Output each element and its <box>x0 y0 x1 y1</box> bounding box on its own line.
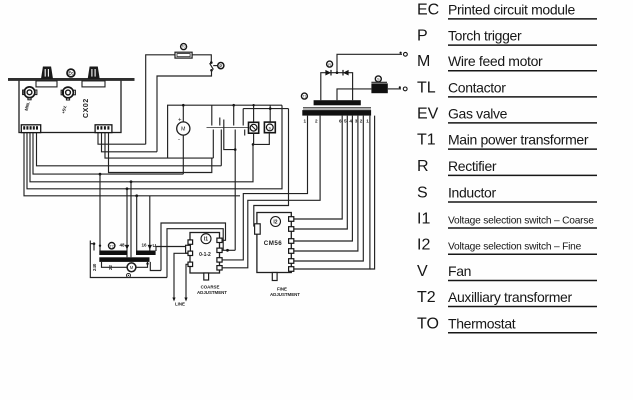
EV coil top feed <box>253 105 255 122</box>
I1 right terminals <box>217 238 222 242</box>
T2 right loop <box>150 262 161 271</box>
negative terminal <box>403 87 407 91</box>
trigger blade <box>210 63 214 69</box>
legend row TO <box>417 315 597 333</box>
svg-text:Main power transformer: Main power transformer <box>448 132 589 148</box>
tap wire 4 <box>294 116 348 229</box>
wire e2 <box>102 133 158 152</box>
inductor body <box>371 83 387 93</box>
legend row P <box>417 28 597 46</box>
thermostat TO body <box>175 52 192 58</box>
legend row M <box>417 53 597 71</box>
wire term1 (arc over box) <box>161 223 226 271</box>
svg-text:S: S <box>377 78 380 82</box>
tap wire 9 <box>370 116 375 269</box>
secondary bar <box>314 100 361 105</box>
wire to I2 tab <box>254 109 289 226</box>
arrowhead 1 <box>172 298 175 302</box>
arrowhead 2 <box>184 298 187 302</box>
svg-text:TL: TL <box>417 79 436 96</box>
svg-text:16: 16 <box>142 243 148 248</box>
svg-text:I2: I2 <box>273 220 277 226</box>
svg-text:S: S <box>417 185 428 202</box>
wire e4 <box>109 133 212 173</box>
drop D <box>136 196 138 251</box>
svg-text:+5V.: +5V. <box>61 105 68 115</box>
wire term4 (to T1 tap 2) <box>222 116 320 268</box>
fan V circuit <box>102 262 128 267</box>
I2 left tab <box>255 224 261 234</box>
motor M circle <box>177 117 190 142</box>
connector CN2 (right) <box>95 125 112 133</box>
svg-text:4: 4 <box>349 119 352 124</box>
tap arrow 1 <box>125 245 129 250</box>
knob K2 on panel <box>89 67 99 78</box>
svg-text:Printed circuit module: Printed circuit module <box>448 1 575 17</box>
svg-text:EC: EC <box>417 1 439 18</box>
svg-text:ADJUSTMENT: ADJUSTMENT <box>197 290 227 295</box>
positive terminal <box>404 52 408 56</box>
legend row EC <box>417 1 597 19</box>
svg-text:TO: TO <box>417 315 439 332</box>
primary bar <box>99 257 149 262</box>
EV coil bottom lead <box>253 133 255 144</box>
svg-text:I1: I1 <box>204 237 208 243</box>
svg-text:CM56: CM56 <box>264 240 283 247</box>
svg-text:3: 3 <box>355 119 358 124</box>
svg-text:M: M <box>130 265 134 270</box>
svg-text:240: 240 <box>92 263 97 271</box>
line wire 1 <box>174 253 189 298</box>
wire bottom of P loop <box>157 70 212 152</box>
fan motor circle <box>127 263 136 272</box>
wire l4 (to supply rail end) <box>27 105 282 189</box>
svg-text:Torch trigger: Torch trigger <box>448 28 522 44</box>
wire term2 (arc over box) <box>222 249 235 251</box>
legend row R <box>417 158 597 176</box>
I2 shaft <box>272 273 277 281</box>
line wire 2 <box>186 264 189 298</box>
drop B <box>126 189 128 257</box>
tap wire 3 <box>294 116 342 219</box>
diode D2 <box>343 70 349 76</box>
svg-text:R: R <box>328 63 331 67</box>
svg-text:Wire feed motor: Wire feed motor <box>448 53 543 69</box>
contact 3 <box>234 105 236 149</box>
TO label circle <box>181 44 187 50</box>
I1 left terminals <box>188 240 193 244</box>
svg-text:T1: T1 <box>417 132 436 149</box>
drop C <box>130 182 132 257</box>
front panel bar <box>8 78 135 81</box>
tap wire 8 <box>294 116 370 269</box>
connector CN1 (left) <box>21 125 40 133</box>
wire l5 <box>24 133 240 196</box>
V label circle <box>127 273 131 277</box>
svg-text:Ec: Ec <box>68 71 74 76</box>
mechanical link line <box>207 127 251 129</box>
legend row I1 <box>417 211 597 229</box>
svg-text:Thermostat: Thermostat <box>448 315 516 331</box>
left rail of T2 <box>90 241 167 278</box>
TL coil bottom lead <box>253 133 269 145</box>
svg-text:T1: T1 <box>303 95 307 99</box>
EC label circle <box>67 69 75 77</box>
svg-text:T2: T2 <box>417 289 436 306</box>
I2 right terminals <box>289 217 294 222</box>
tap arrow 2 <box>148 245 152 250</box>
P label circle <box>218 63 224 69</box>
svg-text:Voltage selection switch – Coa: Voltage selection switch – Coarse <box>448 216 594 227</box>
I1 left tab <box>186 245 191 253</box>
svg-text:M: M <box>181 127 185 133</box>
svg-text:1: 1 <box>304 119 307 124</box>
svg-text:EV: EV <box>417 105 439 122</box>
drop A <box>99 174 101 250</box>
I2 label circle <box>271 217 281 227</box>
inductor output wire <box>388 88 401 90</box>
I2 box <box>257 213 291 273</box>
potentiometer +5V <box>61 87 76 114</box>
svg-text:To: To <box>182 45 186 49</box>
svg-text:Fan: Fan <box>448 263 471 279</box>
tap wire 7 <box>294 116 364 261</box>
svg-text:2: 2 <box>360 119 363 124</box>
svg-text:2: 2 <box>315 119 318 124</box>
PCB body of module EC <box>19 80 121 133</box>
tap wire 5 <box>294 116 353 241</box>
tap wire 6 <box>294 116 358 251</box>
auxiliary wire U <box>224 120 235 150</box>
node d4 <box>99 173 102 176</box>
svg-text:Auxilliary transformer: Auxilliary transformer <box>448 289 572 305</box>
legend row V <box>417 263 597 281</box>
positive output wire <box>337 54 402 72</box>
contact 2 <box>220 118 222 166</box>
svg-text:Contactor: Contactor <box>448 79 506 95</box>
svg-text:I1: I1 <box>417 211 430 228</box>
svg-text:P: P <box>219 63 222 68</box>
wire e3 <box>105 133 213 159</box>
core lines <box>303 107 371 109</box>
svg-text:V: V <box>417 263 428 280</box>
R label circle <box>327 61 333 67</box>
node d3 <box>135 194 138 197</box>
wire l2 <box>33 133 183 175</box>
svg-text:+: + <box>178 117 182 123</box>
T1 label circle <box>301 93 307 99</box>
I1 box <box>190 233 220 274</box>
potentiometer MIN <box>23 87 37 111</box>
svg-text:6: 6 <box>339 119 342 124</box>
svg-text:P: P <box>417 28 428 45</box>
contactor TL coil <box>264 122 275 133</box>
node d1 <box>126 187 129 190</box>
secondary bar right <box>136 251 156 256</box>
diode D1 <box>325 70 331 76</box>
svg-text:FINE: FINE <box>277 287 287 292</box>
svg-text:Rectifier: Rectifier <box>448 158 497 174</box>
wire e1 <box>98 133 146 145</box>
svg-text:48: 48 <box>120 243 126 248</box>
I1 shaft <box>204 273 209 280</box>
knob K1 on panel <box>42 67 52 78</box>
legend row EV <box>417 105 597 123</box>
svg-text:Gas valve: Gas valve <box>448 105 508 121</box>
diode bridge wire <box>321 73 353 101</box>
svg-text:5: 5 <box>344 119 347 124</box>
svg-text:I2: I2 <box>417 237 430 254</box>
svg-text:-: - <box>178 137 180 143</box>
panel notch 1 <box>36 81 57 87</box>
legend row T2 <box>417 289 597 307</box>
torch trigger P contacts <box>210 61 213 64</box>
S label circle <box>375 76 381 82</box>
node rail-TL <box>232 104 235 107</box>
TL return wire down to switch area <box>234 150 236 251</box>
node d2 <box>130 180 133 183</box>
gas valve EV coil <box>249 122 259 133</box>
TL coil top feed <box>269 105 271 122</box>
svg-text:R: R <box>417 158 429 175</box>
supply rail <box>168 105 282 158</box>
legend row T1 <box>417 132 597 150</box>
motor leads <box>182 105 184 122</box>
secondary bar left <box>99 251 127 256</box>
link T2 to switch I1 <box>156 247 187 252</box>
svg-text:CX02: CX02 <box>83 98 90 118</box>
primary bar <box>302 110 371 116</box>
wire l3 (to EV coil return) <box>30 133 253 182</box>
wire term3 (to T1 tap 1) <box>222 116 307 260</box>
svg-text:1: 1 <box>366 119 369 124</box>
drop E <box>149 196 151 251</box>
svg-text:MIN.: MIN. <box>24 101 31 111</box>
contact 4 <box>243 109 245 136</box>
center tap wire to inductor <box>337 89 371 100</box>
wire top loop to thermostat <box>146 55 212 144</box>
svg-text:LINE: LINE <box>175 302 185 307</box>
legend row I2 <box>417 237 597 255</box>
svg-text:COARSE: COARSE <box>201 285 220 290</box>
wire l1 <box>37 133 222 166</box>
node rail-motor <box>182 104 185 107</box>
svg-text:M: M <box>417 53 430 70</box>
I1 label circle <box>201 234 211 244</box>
legend row TL <box>417 79 597 97</box>
legend row S <box>417 185 597 203</box>
svg-text:Inductor: Inductor <box>448 185 496 201</box>
svg-text:Voltage selection switch – Fin: Voltage selection switch – Fine <box>448 242 582 253</box>
contact 1 <box>212 105 214 158</box>
T2 label circle <box>109 243 115 249</box>
svg-text:0-1-2: 0-1-2 <box>199 252 211 258</box>
svg-text:ADJUSTMENT: ADJUSTMENT <box>270 292 300 297</box>
svg-text:T2: T2 <box>110 244 114 248</box>
panel notch 2 <box>82 81 105 87</box>
lower rail <box>243 108 288 110</box>
